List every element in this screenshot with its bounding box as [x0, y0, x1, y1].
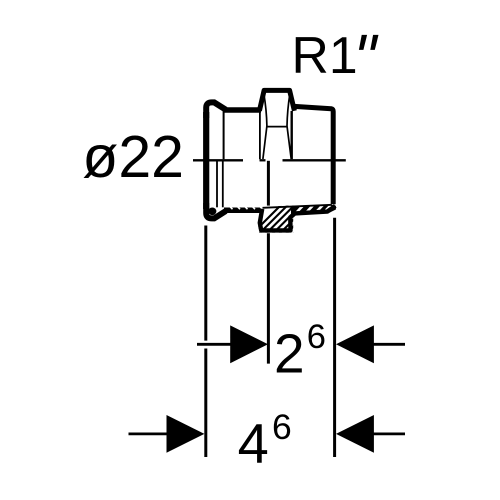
press socket outer contour bottom (bead and shoulder) — [206, 203, 226, 218]
thread band sectioned (black with slits) — [291, 205, 336, 218]
socket inner mouth edge (top half) — [223, 111, 225, 159]
svg-text:6: 6 — [272, 407, 292, 447]
male thread top edge — [293, 106, 334, 204]
dimension 46 left arrow — [167, 415, 205, 453]
socket bottom wall hatch slits — [230, 206, 263, 209]
dimension 26 line left tail — [197, 343, 231, 346]
dimension 26 right arrow — [336, 325, 374, 363]
dimension 26 left arrow — [230, 325, 268, 363]
socket top wall band — [224, 107, 261, 112]
section bore line (thin top of hatched wall) — [263, 205, 332, 208]
extension line left lower (socket end face) — [204, 349, 207, 458]
dimension 46 line left tail — [129, 432, 168, 435]
dimension 46 right arrow — [336, 415, 374, 453]
socket bottom wall band — [224, 207, 261, 213]
foot serif of digit 1 — [333, 70, 351, 73]
sectioned wall hatching — [246, 200, 327, 240]
hex chamfer arc right — [287, 94, 291, 160]
press socket outer contour top (bead peak and shoulder) — [206, 102, 226, 118]
hex left silhouette edge — [259, 111, 261, 159]
hex chamfer horizontal line — [267, 126, 287, 128]
extension line middle upper stub (thread begin) — [267, 161, 270, 206]
centerline left dash — [193, 159, 243, 161]
svg-text:ø22: ø22 — [82, 124, 184, 190]
dimension 26 line right tail — [373, 343, 405, 346]
double prime tick 2 — [370, 35, 378, 50]
svg-text:2: 2 — [274, 322, 305, 384]
socket sectioned wall inner line A (bottom half) — [216, 161, 218, 207]
hex right boundary edge — [291, 111, 293, 159]
extension line left upper (socket end face) — [204, 226, 207, 341]
bead section blob — [208, 208, 216, 216]
centerline right dash — [283, 159, 346, 161]
svg-text:R1: R1 — [292, 26, 358, 84]
svg-text:4: 4 — [238, 411, 269, 474]
hex nut top outline — [259, 90, 294, 110]
dimension 46 line right tail — [373, 432, 405, 435]
svg-text:6: 6 — [307, 318, 326, 356]
thread band white slits — [296, 204, 330, 212]
press socket left outer wall — [203, 112, 209, 209]
centerline middle dash — [260, 159, 266, 161]
section outline thick (hex lug and thread band bottom) — [260, 206, 336, 231]
double prime tick 1 — [359, 35, 367, 50]
hex chamfer arc left — [263, 94, 267, 160]
socket sectioned wall inner line B (bottom half) — [222, 161, 224, 207]
extension line right (thread end face) — [333, 218, 336, 457]
extension line middle lower (thread begin) — [267, 233, 270, 363]
